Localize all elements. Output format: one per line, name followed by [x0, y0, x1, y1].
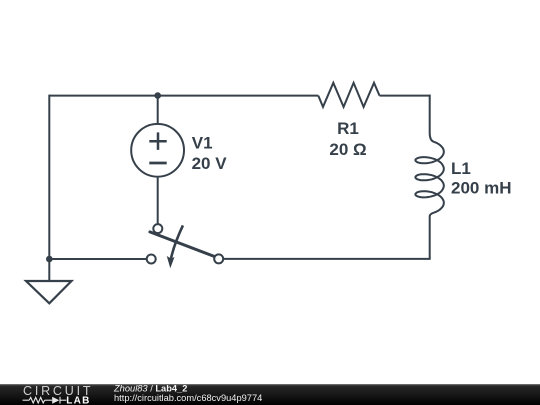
wire: V1 top lead — [157, 96, 159, 123]
switch right terminal circle — [214, 254, 223, 263]
wire: top horizontal left segment — [49, 95, 318, 97]
node: junction dot bottom left — [46, 256, 53, 263]
resistor R1 zigzag — [318, 83, 379, 107]
wire: left vertical — [48, 95, 50, 282]
switch left terminal circle — [147, 255, 156, 264]
svg-text:http://circuitlab.com/c68cv9u4: http://circuitlab.com/c68cv9u4p9774 — [114, 393, 262, 403]
svg-text:R1: R1 — [337, 119, 359, 138]
ground symbol — [26, 281, 72, 303]
svg-text:Zhoul83 / Lab4_2: Zhoul83 / Lab4_2 — [113, 383, 187, 393]
node: junction dot top (V1 branch) — [154, 92, 161, 99]
V1 minus sign — [149, 162, 166, 165]
voltage source V1 body — [131, 124, 184, 177]
wire: top horizontal right segment (resistor to corner) — [380, 95, 431, 97]
footer bar — [0, 384, 540, 405]
switch SW lever — [150, 232, 214, 257]
svg-text:LAB: LAB — [66, 395, 90, 405]
svg-text:20 V: 20 V — [192, 154, 228, 173]
switch arrowhead — [167, 256, 175, 268]
svg-text:L1: L1 — [451, 159, 471, 178]
logo schematic line with resistor and diode — [23, 397, 67, 404]
inductor L1 coil — [415, 95, 443, 259]
V1 plus sign — [149, 132, 166, 150]
switch pivot terminal circle — [153, 224, 162, 233]
switch motion arc — [171, 225, 183, 259]
svg-text:20 Ω: 20 Ω — [329, 140, 366, 159]
svg-text:200 mH: 200 mH — [451, 178, 511, 197]
wire: V1 bottom lead to switch pivot — [157, 178, 159, 224]
logo diode triangle — [52, 397, 59, 404]
wire: bottom right horizontal (switch right terminal to corner) — [223, 258, 430, 260]
svg-text:V1: V1 — [192, 134, 213, 153]
wire: bottom left horizontal (junction to switch left terminal) — [49, 258, 147, 260]
